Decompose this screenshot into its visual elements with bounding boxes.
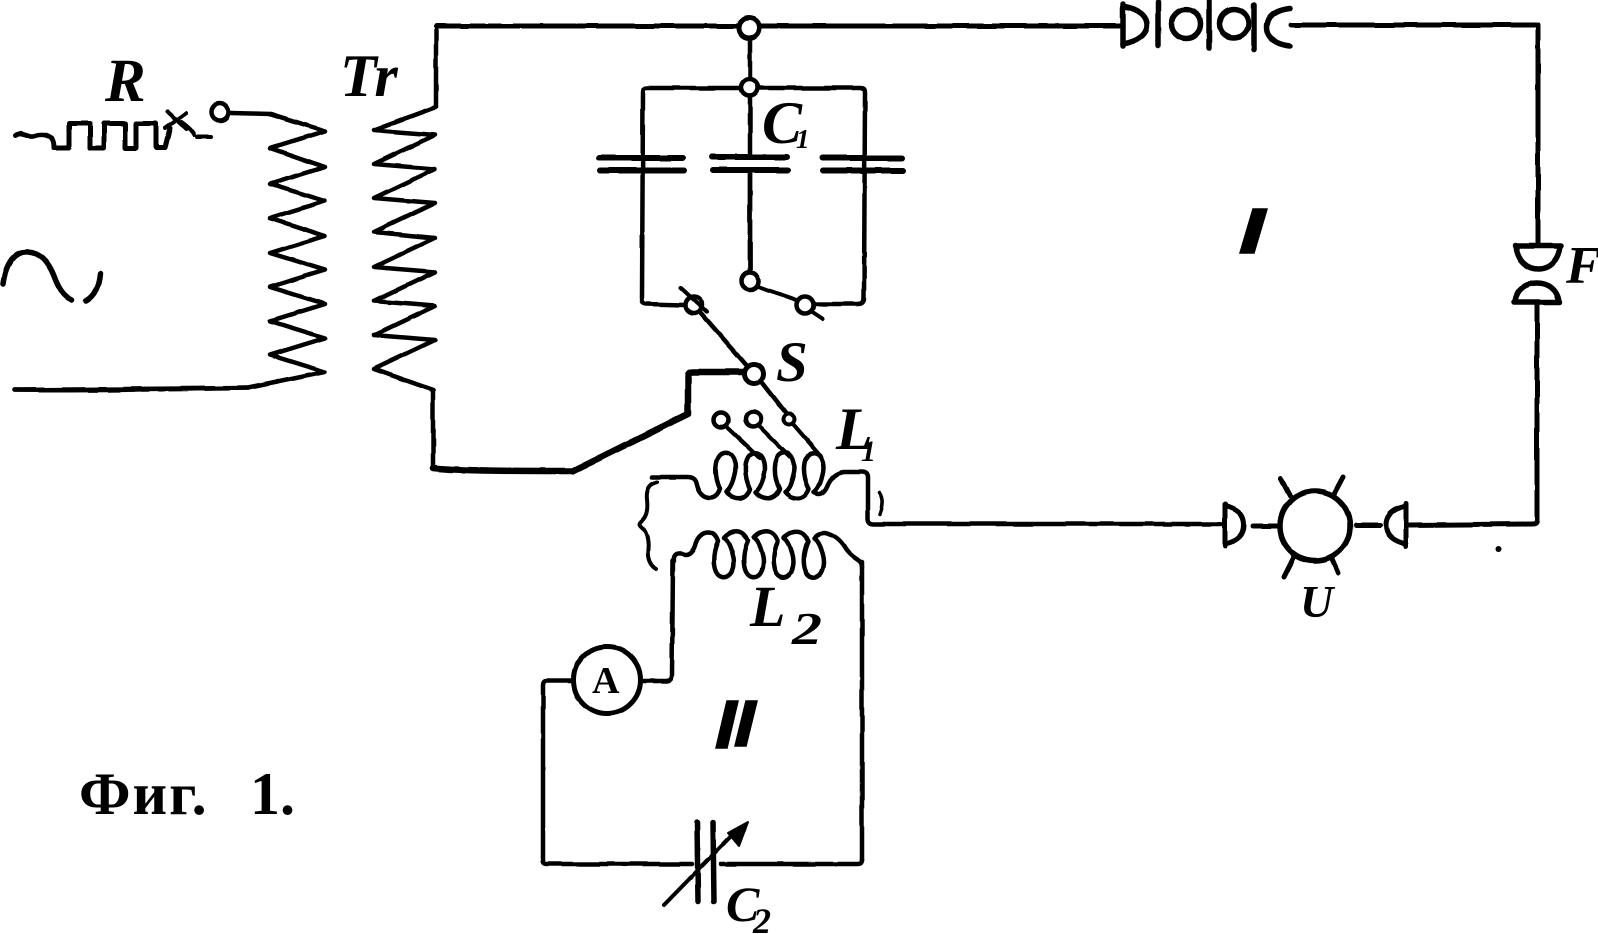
svg-text:F: F	[1565, 237, 1598, 295]
svg-text:1.: 1.	[250, 761, 295, 827]
svg-text:U: U	[1300, 576, 1336, 627]
svg-text:A: A	[592, 660, 620, 702]
svg-text:Фиг.: Фиг.	[79, 761, 209, 827]
svg-text:Tr: Tr	[340, 43, 398, 109]
svg-text:2: 2	[752, 901, 771, 934]
svg-text:R: R	[104, 48, 146, 115]
svg-text:S: S	[776, 331, 808, 394]
svg-text:L: L	[749, 574, 785, 639]
svg-text:2: 2	[791, 603, 822, 654]
svg-text:1: 1	[861, 435, 876, 468]
svg-text:1: 1	[796, 124, 810, 154]
